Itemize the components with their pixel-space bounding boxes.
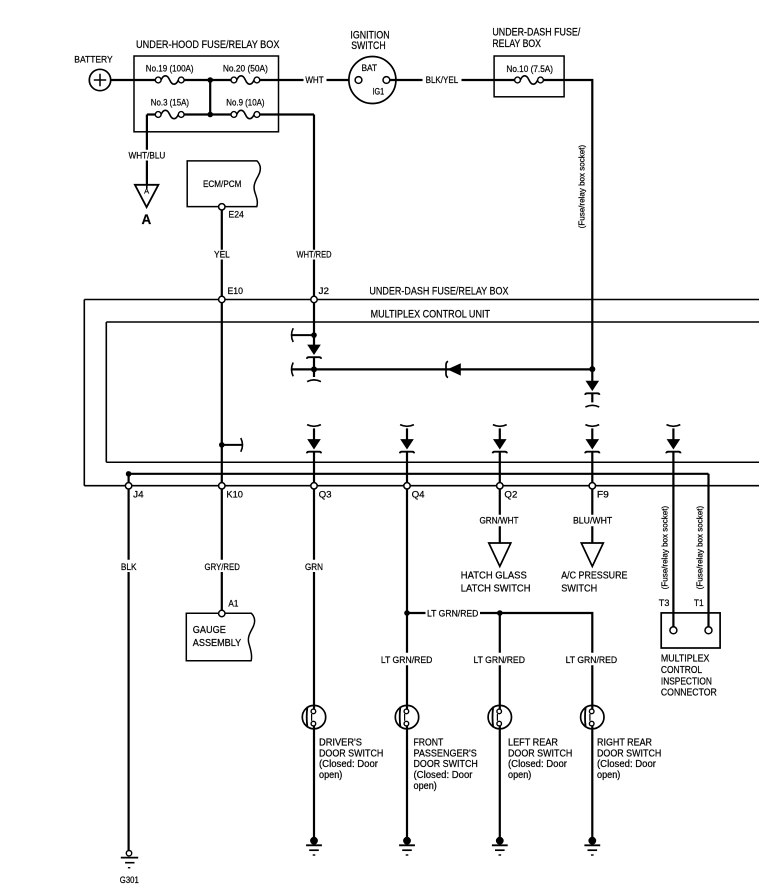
under-dash fuse/relay box (top)	[494, 56, 564, 97]
svg-text:DOOR SWITCH: DOOR SWITCH	[319, 748, 383, 759]
svg-text:BLK/YEL: BLK/YEL	[426, 75, 459, 86]
svg-text:DOOR SWITCH: DOOR SWITCH	[508, 748, 572, 759]
gauge assembly box	[186, 613, 254, 661]
junction node above J4	[126, 471, 132, 477]
svg-text:(Closed: Door: (Closed: Door	[508, 759, 568, 770]
wire E24 to E10	[221, 210, 223, 296]
wire J4 down (BLK)	[128, 489, 130, 850]
battery symbol	[89, 69, 110, 90]
svg-text:DOOR SWITCH: DOOR SWITCH	[597, 748, 661, 759]
wire socket stub below bus node	[313, 369, 315, 377]
wire T3 column down to inspection connector	[672, 452, 674, 627]
svg-text:BLK: BLK	[121, 562, 137, 573]
socket top of diode F9 lower column	[585, 425, 599, 427]
junction node J2 internal	[311, 332, 317, 338]
under-dash fuse/relay box left edge	[83, 300, 85, 486]
under-hood fuse/relay box	[134, 56, 279, 132]
svg-text:Q4: Q4	[412, 490, 425, 501]
svg-text:WHT: WHT	[305, 75, 323, 86]
wire J2 column from fuse No.9	[313, 115, 315, 297]
diode D1 (J2 column)	[307, 345, 321, 359]
left rear door switch	[488, 705, 511, 729]
svg-text:MULTIPLEX CONTROL UNIT: MULTIPLEX CONTROL UNIT	[371, 308, 491, 320]
under-dash fuse/relay box main top edge	[84, 299, 759, 301]
wire T1 column down to inspection connector	[707, 474, 709, 628]
ground G301	[121, 851, 138, 868]
fuse No.3 (15A)	[155, 110, 184, 118]
ECM/PCM box	[187, 161, 260, 207]
socket top of diode T3 column	[667, 425, 681, 427]
wire left rear door switch to ground	[499, 729, 501, 838]
svg-text:LT GRN/RED: LT GRN/RED	[566, 655, 618, 666]
svg-text:Q3: Q3	[319, 490, 332, 501]
wire diode to pin Q3	[313, 452, 315, 483]
wire socket to diode (Q3 column)	[313, 428, 315, 439]
svg-text:(Fuse/relay box socket): (Fuse/relay box socket)	[660, 506, 670, 590]
right rear door switch	[581, 705, 604, 729]
svg-text:E10: E10	[228, 286, 244, 297]
svg-text:T3: T3	[659, 598, 670, 609]
fuse No.10 (7.5A)	[515, 76, 544, 84]
socket bracket right of K10 node	[241, 438, 243, 452]
wire fuse No.9 to J2 column	[260, 113, 314, 115]
svg-text:FRONT: FRONT	[414, 738, 444, 749]
svg-text:DRIVER'S: DRIVER'S	[319, 738, 362, 749]
svg-text:INSPECTION: INSPECTION	[661, 676, 712, 687]
ground right rear door switch	[584, 837, 600, 855]
pin J2	[311, 296, 317, 302]
svg-text:WHT/RED: WHT/RED	[297, 250, 332, 261]
svg-text:G301: G301	[120, 875, 139, 886]
fuse No.20 (50A)	[231, 76, 260, 84]
svg-text:No.9 (10A): No.9 (10A)	[226, 98, 264, 109]
wire socket to diode (Q4 column)	[406, 428, 408, 439]
svg-text:HATCH GLASS: HATCH GLASS	[461, 571, 527, 582]
wire to T1 horizontal run	[129, 473, 709, 475]
svg-text:E24: E24	[228, 210, 244, 221]
svg-text:GRN: GRN	[305, 562, 323, 573]
svg-text:IG1: IG1	[372, 86, 384, 97]
svg-text:WHT/BLU: WHT/BLU	[129, 151, 166, 162]
svg-text:CONTROL: CONTROL	[661, 665, 703, 676]
svg-text:LEFT REAR: LEFT REAR	[508, 738, 558, 749]
internal bus wire	[292, 368, 592, 370]
svg-text:LATCH SWITCH: LATCH SWITCH	[461, 584, 531, 595]
svg-text:BLU/WHT: BLU/WHT	[573, 516, 612, 527]
wire battery to under-hood fuse box	[111, 79, 156, 81]
multiplex control inspection connector box	[661, 613, 720, 648]
multiplex control unit left edge	[105, 322, 107, 462]
terminal T3	[670, 627, 677, 634]
svg-text:PASSENGER'S: PASSENGER'S	[414, 748, 478, 759]
svg-text:J2: J2	[319, 286, 330, 297]
svg-text:LT GRN/RED: LT GRN/RED	[473, 655, 525, 666]
svg-text:(Fuse/relay box socket): (Fuse/relay box socket)	[695, 506, 705, 590]
svg-text:J4: J4	[133, 490, 144, 501]
svg-text:A: A	[144, 187, 149, 196]
svg-text:UNDER-DASH FUSE/: UNDER-DASH FUSE/	[492, 27, 581, 39]
wire socket to diode (F9 lower column)	[591, 428, 593, 439]
socket top of diode Q4 column	[400, 425, 414, 427]
junction node row1	[207, 77, 213, 83]
pin Q4	[404, 483, 410, 489]
svg-text:RELAY BOX: RELAY BOX	[492, 38, 541, 50]
multiplex control unit bottom edge	[106, 461, 759, 463]
svg-text:BATTERY: BATTERY	[74, 55, 113, 66]
terminal T1	[705, 627, 712, 634]
ignition switch	[349, 57, 396, 104]
svg-text:(Closed: Door: (Closed: Door	[319, 759, 379, 770]
hatch glass latch switch connector	[489, 543, 511, 566]
wire socket to diode (Q2 column)	[499, 428, 501, 439]
front passenger&#39;s door switch	[395, 705, 418, 729]
wire diode D1 to bus node	[313, 357, 315, 369]
junction node internal bus	[311, 366, 317, 372]
wire fuse No.10 down F9 feed column	[543, 80, 592, 369]
fuse No.19 (100A)	[155, 76, 184, 84]
wire fuse No.20 to ignition switch	[260, 79, 355, 81]
wire ignition to under-dash fuse box	[390, 79, 515, 81]
svg-text:CONNECTOR: CONNECTOR	[661, 688, 717, 699]
wire Q3 down (GRN)	[313, 489, 315, 706]
svg-text:open): open)	[508, 770, 531, 781]
socket top of diode Q2 column	[493, 425, 507, 427]
junction node Q4 branch	[404, 610, 410, 616]
multiplex control unit top edge	[106, 321, 759, 323]
wire Q4 down	[406, 489, 408, 706]
diode D3 (F9 feed column)	[585, 381, 599, 395]
svg-text:(Closed: Door: (Closed: Door	[597, 759, 657, 770]
svg-text:(Fuse/relay box socket): (Fuse/relay box socket)	[577, 145, 587, 229]
junction node left rear branch	[497, 610, 503, 616]
svg-text:open): open)	[319, 770, 342, 781]
wire E10 to K10	[221, 303, 223, 483]
svg-text:GRN/WHT: GRN/WHT	[479, 516, 518, 527]
svg-text:ECM/PCM: ECM/PCM	[203, 179, 242, 190]
pin F9	[589, 483, 595, 489]
wire J4 stub	[128, 474, 130, 483]
wire fuse No.19 to fuse No.20	[184, 79, 231, 81]
junction node row2	[207, 112, 213, 118]
svg-text:RIGHT REAR: RIGHT REAR	[597, 738, 652, 749]
wire driver&#39;s door switch to ground	[313, 729, 315, 838]
pin Q3	[311, 483, 317, 489]
svg-text:A: A	[142, 212, 152, 227]
svg-text:UNDER-HOOD FUSE/RELAY BOX: UNDER-HOOD FUSE/RELAY BOX	[136, 39, 280, 51]
wire diode to pin Q4	[406, 452, 408, 483]
wire fuse No.3 to fuse No.9	[184, 113, 231, 115]
pin E24	[219, 204, 225, 210]
wire stub right from K10 node	[223, 444, 242, 446]
socket end below bus node	[307, 380, 321, 382]
svg-text:SWITCH: SWITCH	[561, 584, 597, 595]
ground front passenger&#39;s door switch	[399, 837, 415, 855]
wire stub left from J2 node	[292, 334, 313, 336]
wire Q2 down (GRN/WHT)	[499, 489, 501, 543]
wire left rear door switch	[499, 613, 501, 706]
svg-text:No.19 (100A): No.19 (100A)	[146, 64, 194, 75]
wire row2 left segment	[147, 113, 155, 115]
diode (Q4 column)	[400, 439, 414, 453]
wire diode D3 to socket	[591, 393, 593, 402]
svg-text:GAUGE: GAUGE	[193, 625, 226, 636]
wire J2 node to diode D1	[313, 335, 315, 345]
connector A triangle	[135, 185, 159, 207]
ground left rear door switch	[492, 837, 508, 855]
pin A1	[219, 610, 225, 616]
svg-text:UNDER-DASH FUSE/RELAY BOX: UNDER-DASH FUSE/RELAY BOX	[369, 286, 509, 298]
svg-text:F9: F9	[597, 490, 609, 501]
wire F9 down (BLU/WHT)	[591, 489, 593, 543]
socket top of diode Q3 column	[307, 425, 321, 427]
driver&#39;s door switch	[302, 705, 325, 729]
pin J4	[125, 483, 131, 489]
ground driver&#39;s door switch	[306, 837, 322, 855]
svg-text:open): open)	[597, 770, 620, 781]
svg-text:BAT: BAT	[361, 63, 377, 74]
pin Q2	[497, 483, 503, 489]
socket bracket left of J2 node	[292, 328, 294, 342]
fuse No.9 (10A)	[231, 110, 260, 118]
svg-text:A/C PRESSURE: A/C PRESSURE	[561, 571, 628, 582]
svg-text:SWITCH: SWITCH	[351, 40, 386, 52]
wire right rear door switch to ground	[591, 729, 593, 838]
svg-text:T1: T1	[694, 598, 704, 609]
svg-text:No.3 (15A): No.3 (15A)	[151, 98, 189, 109]
svg-text:Q2: Q2	[504, 490, 517, 501]
diode (F9 lower column)	[585, 439, 599, 453]
svg-text:LT GRN/RED: LT GRN/RED	[381, 655, 433, 666]
svg-text:DOOR SWITCH: DOOR SWITCH	[414, 759, 478, 770]
diode (Q2 column)	[493, 439, 507, 453]
svg-text:(Closed: Door: (Closed: Door	[414, 770, 474, 781]
wire front passenger&#39;s door switch to ground	[406, 729, 408, 838]
svg-text:A1: A1	[228, 599, 238, 610]
pin E10	[219, 296, 225, 302]
svg-text:ASSEMBLY: ASSEMBLY	[193, 638, 242, 649]
svg-text:MULTIPLEX: MULTIPLEX	[661, 654, 710, 665]
junction node F9 feed	[589, 366, 595, 372]
wire junction column between fuse rows	[209, 80, 211, 115]
junction node K10 column	[219, 442, 225, 448]
LT GRN/RED branch wire	[407, 613, 592, 706]
diode D2 left-pointing on bus	[446, 361, 461, 377]
socket bracket left end of bus	[292, 363, 294, 377]
diode (T3 column)	[666, 439, 680, 453]
wire diode to pin Q2	[499, 452, 501, 483]
wire socket to diode (T3 column)	[672, 428, 674, 439]
wire WHT/BLU down to connector A	[146, 115, 148, 185]
pin K10	[219, 483, 225, 489]
under-dash fuse/relay box bottom edge	[84, 485, 759, 487]
svg-text:LT GRN/RED: LT GRN/RED	[427, 608, 479, 619]
diode (Q3 column)	[307, 439, 321, 453]
svg-text:K10: K10	[226, 490, 243, 501]
svg-text:No.20 (50A): No.20 (50A)	[223, 64, 268, 75]
wire F9 feed node to diode D3	[591, 369, 593, 381]
wire diode to pin F9 lower	[591, 452, 593, 483]
svg-text:YEL: YEL	[214, 250, 230, 261]
svg-text:open): open)	[414, 781, 437, 792]
svg-text:GRY/RED: GRY/RED	[205, 562, 240, 573]
wire K10 down (GRY/RED)	[221, 489, 223, 610]
wire J2 into multiplex unit	[313, 303, 315, 335]
A/C pressure switch connector	[581, 543, 603, 566]
socket end below diode D3	[585, 405, 599, 407]
svg-text:No.10 (7.5A): No.10 (7.5A)	[506, 64, 553, 75]
